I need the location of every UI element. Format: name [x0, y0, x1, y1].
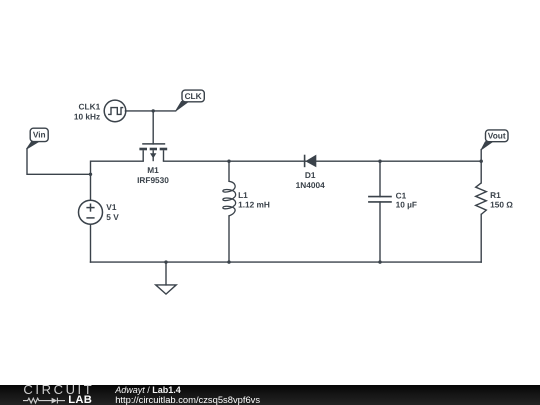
node junction ground [164, 260, 167, 263]
svg-text:CLK1: CLK1 [79, 101, 101, 111]
flag CLK [176, 90, 205, 111]
wire V1 bottom to rail [90, 224, 92, 262]
logo LAB [68, 394, 92, 405]
resistor R1 [476, 183, 487, 215]
label D1 1N4004 [296, 170, 325, 190]
node junction gate/CLK [152, 109, 155, 112]
footer bar [0, 385, 540, 405]
wire top rail right (M1 drain to Vout node) [164, 160, 482, 162]
transistor M1 PMOS IRF9530 [139, 144, 167, 161]
label V1 5 V [106, 202, 119, 222]
svg-text:L1: L1 [238, 190, 248, 200]
wire bottom rail [91, 261, 482, 263]
label CLK1 10 kHz [74, 101, 101, 121]
wire Vout tap and R1 branch [480, 150, 482, 183]
wire Vin flag to V1 branch [27, 149, 91, 174]
svg-text:5 V: 5 V [106, 212, 119, 222]
svg-text:V1: V1 [106, 202, 117, 212]
label L1 1.12 mH [238, 190, 270, 210]
label C1 10 uF [396, 190, 417, 209]
wire L1 branch top [228, 161, 230, 181]
logo CIRCUIT [23, 382, 94, 397]
node junction L1 bottom [227, 260, 230, 263]
flag Vout [481, 130, 508, 150]
svg-text:IRF9530: IRF9530 [137, 175, 169, 185]
label R1 150 ohm [490, 190, 513, 209]
footer url [115, 394, 260, 405]
svg-text:1.12 mH: 1.12 mH [238, 200, 270, 210]
wire CLK source to CLK flag [125, 110, 175, 112]
svg-text:Vin: Vin [33, 130, 46, 140]
capacitor C1 [368, 197, 392, 202]
inductor L1 [223, 181, 236, 216]
flag Vin [27, 128, 49, 149]
svg-text:CLK: CLK [185, 91, 202, 101]
svg-text:10 µF: 10 µF [396, 199, 417, 209]
svg-text:1N4004: 1N4004 [296, 180, 325, 190]
ground [156, 285, 177, 294]
svg-text:150 Ω: 150 Ω [490, 199, 513, 209]
node junction Vout/R1 [480, 160, 483, 163]
node junction L1 top [227, 160, 230, 163]
clock source CLK1 [104, 100, 126, 122]
source V1 [79, 200, 103, 224]
svg-text:M1: M1 [147, 165, 159, 175]
wire C1 branch top [379, 161, 381, 196]
wire ground drop [165, 262, 167, 285]
svg-text:D1: D1 [305, 170, 316, 180]
wire C1 branch bottom [379, 202, 381, 262]
label M1 IRF9530 [137, 165, 169, 185]
logo squiggle resistor+diode [22, 395, 72, 405]
svg-text:Vout: Vout [488, 131, 506, 141]
node junction C1 bottom [378, 260, 381, 263]
node junction C1 top [378, 160, 381, 163]
wire top rail left (V1 top to M1 source) [91, 161, 144, 200]
footer title Adwayt / Lab1.4 [115, 385, 181, 395]
wire R1 bottom to rail [480, 214, 482, 262]
svg-text:10 kHz: 10 kHz [74, 111, 100, 121]
wire gate drop [152, 111, 154, 144]
wire L1 branch bottom [228, 216, 230, 262]
node junction Vin/V1 [89, 173, 92, 176]
diode D1 1N4004 [305, 155, 317, 168]
